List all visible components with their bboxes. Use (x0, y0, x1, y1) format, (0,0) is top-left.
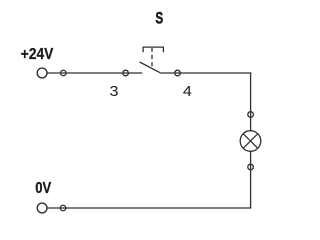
switch actuator bracket (143, 47, 163, 52)
terminal 0V (37, 203, 47, 213)
wire lamp to bottom rail (250, 151, 252, 208)
terminal +24V (37, 68, 47, 78)
switch S blade (140, 62, 161, 73)
svg-text:+24V: +24V (21, 46, 54, 63)
junction circle on +24V wire (61, 70, 67, 76)
wire right vertical (corner down to lamp) (250, 72, 252, 131)
junction circle on 0V wire (60, 205, 66, 211)
actuator dashed link (151, 48, 153, 68)
label S (switch designator) (155, 9, 163, 28)
svg-text:0V: 0V (35, 180, 51, 197)
lamp terminal circle bottom (248, 164, 254, 170)
lamp terminal circle top (248, 112, 254, 118)
pin label 3 (110, 83, 119, 100)
wire 0V rail (47, 207, 252, 209)
svg-text:4: 4 (183, 83, 192, 100)
pin 4 contact circle (175, 70, 181, 76)
pin 3 contact circle (123, 70, 129, 76)
net label 0V (35, 180, 51, 197)
net label +24V (21, 46, 54, 63)
svg-text:S: S (155, 9, 163, 28)
wire +24V rail (terminal to switch contact) (47, 72, 143, 74)
pin label 4 (183, 83, 192, 100)
wire switch pivot to corner (160, 72, 251, 74)
lamp P1 (240, 131, 261, 152)
svg-text:3: 3 (110, 83, 119, 100)
